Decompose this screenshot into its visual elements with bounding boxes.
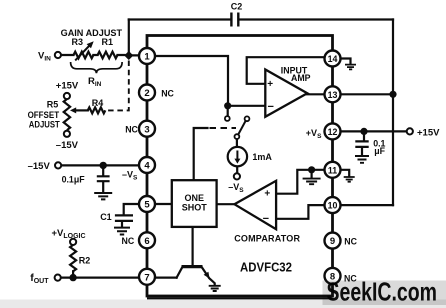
- ground at C1: [114, 228, 130, 235]
- junction at comparator ground: [308, 166, 315, 173]
- svg-text:7: 7: [144, 272, 149, 283]
- wire emitter to ground: [202, 267, 215, 285]
- svg-text:R1: R1: [102, 37, 114, 47]
- svg-text:5: 5: [144, 200, 150, 211]
- junction at pin13 feedback: [389, 91, 396, 98]
- svg-text:14: 14: [328, 54, 338, 64]
- wire 1mA source stubs: [236, 139, 239, 174]
- svg-text:SHOT: SHOT: [182, 203, 208, 213]
- wire comparator junction ground stub: [311, 170, 313, 178]
- svg-text:−: −: [263, 213, 269, 225]
- terminal +Vlogic: [70, 239, 76, 245]
- pin 1: [139, 48, 155, 64]
- wire -15V row to pin4: [61, 164, 147, 166]
- svg-text:AMP: AMP: [291, 73, 311, 83]
- svg-text:C1: C1: [100, 212, 112, 222]
- pin 9: [325, 233, 341, 249]
- wire +Vlogic to R2 to fout junction: [72, 271, 74, 277]
- wire pin14 to amp plus: [247, 57, 333, 84]
- wire C1 to ground: [121, 222, 123, 227]
- transistor Q1: [182, 265, 203, 268]
- wire 0.1uF left stub: [102, 165, 104, 192]
- junction at fout R2: [69, 274, 76, 281]
- switch S1: [225, 116, 230, 121]
- svg-text:R2: R2: [79, 255, 91, 265]
- terminal +15V left: [64, 93, 70, 99]
- bottom scan band: [0, 300, 446, 308]
- wire 0.1uF right stub: [362, 131, 364, 155]
- svg-text:2: 2: [144, 88, 149, 99]
- resistor R3: [74, 52, 94, 59]
- wire C2 right to right vertical: [240, 18, 394, 20]
- op-amp input amp: [265, 70, 307, 117]
- wire one-shot top control: [194, 128, 208, 180]
- capacitor C2: [231, 13, 238, 27]
- wire pin11 left to comparator plus: [277, 170, 333, 194]
- wire pin5 to one-shot: [155, 203, 172, 205]
- svg-text:3: 3: [144, 124, 149, 135]
- current source 1mA: [228, 147, 247, 166]
- wire one-shot bottom to transistor: [192, 227, 194, 265]
- svg-text:COMPARATOR: COMPARATOR: [234, 233, 300, 243]
- pin 7: [139, 269, 155, 285]
- pin 8: [325, 268, 341, 284]
- pin 12: [325, 123, 341, 139]
- capacitor C1: [115, 215, 133, 221]
- junction at -15V cap: [100, 162, 107, 169]
- svg-text:C2: C2: [231, 2, 243, 12]
- wire pin11 right to ground: [333, 170, 350, 176]
- svg-text:ADVFC32: ADVFC32: [240, 259, 292, 274]
- capacitor 0.1uF right: [355, 141, 368, 147]
- svg-text:9: 9: [330, 236, 335, 247]
- svg-text:ADJUST: ADJUST: [29, 120, 60, 130]
- svg-text:–15V: –15V: [28, 161, 51, 172]
- resistor R5: [64, 99, 70, 130]
- svg-text:SeekIC.com: SeekIC.com: [327, 277, 438, 307]
- wire collector diagonal: [177, 267, 183, 278]
- resistor R4: [88, 107, 106, 113]
- junction at amp minus / switch: [224, 102, 231, 109]
- svg-text:10: 10: [328, 201, 338, 211]
- wire right vertical feedback: [392, 20, 394, 206]
- terminal -15V below R5: [64, 131, 70, 137]
- pin 10: [325, 197, 341, 213]
- terminal +15V right: [407, 128, 413, 134]
- svg-text:μF: μF: [374, 146, 385, 156]
- svg-text:R5: R5: [47, 100, 59, 110]
- wire node A to C2: [128, 20, 130, 52]
- pin 14: [325, 51, 341, 67]
- svg-text:1: 1: [144, 52, 150, 63]
- capacitor 0.1uF left: [97, 176, 110, 181]
- svg-text:GAIN ADJUST: GAIN ADJUST: [61, 28, 123, 38]
- svg-text:OFFSET: OFFSET: [28, 110, 60, 120]
- wiper arrow R5: [70, 107, 76, 113]
- pin 11: [325, 162, 341, 178]
- wire comparator output to one-shot: [217, 203, 235, 205]
- svg-text:+: +: [264, 188, 270, 199]
- wire amp output to pin13: [307, 93, 333, 95]
- pin 6: [139, 232, 155, 248]
- pin 3: [139, 121, 155, 137]
- junction at pin12 cap: [360, 128, 367, 135]
- svg-text:–15V: –15V: [56, 140, 79, 151]
- svg-text:R3: R3: [72, 37, 84, 47]
- wire pin10 right: [333, 204, 394, 206]
- potentiometer arrow R3: [75, 41, 94, 60]
- svg-text:6: 6: [144, 236, 149, 247]
- dashed link node A to R4: [105, 61, 129, 111]
- IC body ADVFC32: [147, 36, 333, 297]
- pin 13: [325, 86, 341, 102]
- wire R5 wiper from R4: [75, 109, 88, 111]
- wire fout to pin7: [61, 277, 177, 279]
- wire pin14 right to ground: [333, 59, 351, 64]
- wire pin10 to comparator minus: [277, 205, 333, 219]
- svg-text:+15V: +15V: [56, 81, 79, 92]
- svg-text:12: 12: [328, 127, 338, 137]
- wire Vin row: [61, 54, 147, 57]
- wire thick bottom edge: [147, 297, 333, 299]
- resistor R2: [70, 245, 76, 271]
- comparator: [234, 181, 276, 229]
- wire pin12 to +15V terminal: [333, 130, 408, 132]
- svg-text:11: 11: [328, 165, 337, 175]
- svg-text:+: +: [267, 79, 273, 90]
- ground at transistor emitter: [209, 286, 221, 291]
- terminal -Vs source: [234, 173, 240, 179]
- svg-text:NC: NC: [122, 236, 135, 246]
- svg-text:4: 4: [144, 161, 150, 172]
- ground at left 0.1uF: [94, 193, 112, 199]
- svg-text:0.1μF: 0.1μF: [62, 175, 86, 185]
- svg-text:−: −: [268, 101, 274, 113]
- pin 4: [139, 157, 155, 173]
- ground at right 0.1uF: [355, 156, 369, 163]
- svg-text:13: 13: [328, 90, 338, 100]
- wire pin13 right: [333, 93, 394, 95]
- terminal fout: [55, 275, 61, 281]
- svg-text:+15V: +15V: [417, 127, 440, 138]
- svg-text:NC: NC: [161, 88, 174, 98]
- svg-text:NC: NC: [344, 237, 357, 247]
- svg-text:ONE: ONE: [184, 193, 204, 203]
- wire pin1 to amp minus: [147, 56, 265, 106]
- terminal Vin: [55, 52, 61, 58]
- one-shot box U2: [172, 180, 217, 227]
- ground at pin14: [345, 65, 356, 70]
- junction node A: [124, 51, 133, 60]
- wire C2 left: [129, 18, 230, 20]
- ground at comparator junction: [303, 179, 321, 185]
- ground at pin11 right: [344, 177, 355, 182]
- brace Rin: [71, 62, 123, 73]
- terminal -15V row: [55, 162, 61, 168]
- svg-text:R4: R4: [92, 98, 104, 108]
- pin 2: [139, 85, 155, 101]
- wire switch node stub: [227, 106, 229, 116]
- dashed switch control from one-shot: [210, 127, 237, 129]
- resistor R1: [98, 52, 118, 59]
- watermark SeekIC.com: [323, 277, 446, 307]
- svg-text:1mA: 1mA: [252, 152, 272, 162]
- wire pin5 left to C1: [124, 204, 147, 214]
- pin 5: [139, 196, 155, 212]
- svg-text:NC: NC: [125, 125, 138, 135]
